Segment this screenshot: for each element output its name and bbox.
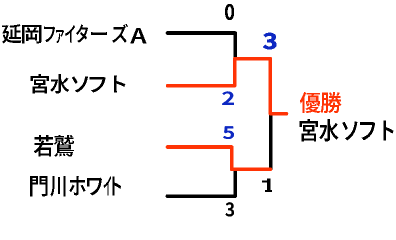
wire: final bottom vertical <box>269 114 273 169</box>
team 3 name glyph 鷲 <box>54 135 75 157</box>
team 1 name glyph ァ <box>56 30 64 43</box>
score 3 (team2 final, winner) <box>264 33 277 49</box>
wire: team4 line + semifinal-2 riser <box>167 171 235 196</box>
wire: team1 line + semifinal-1 drop <box>168 33 236 58</box>
champion name glyph フ <box>360 122 375 140</box>
score 0 (team1 semifinal) <box>225 4 234 20</box>
champion label glyph 優 <box>300 92 321 113</box>
wire: team3 line + semifinal-2 winner <box>168 147 271 169</box>
team 1 name glyph ズ <box>112 24 128 43</box>
score 5 (team3 semifinal, winner) <box>223 126 234 139</box>
score 3 (team4 semifinal) <box>226 202 234 216</box>
team 2 name glyph フ <box>89 77 105 93</box>
champion name glyph ト <box>383 121 393 141</box>
team 4 name glyph イ <box>104 176 112 195</box>
team 2 name glyph ソ <box>72 76 88 92</box>
team 1 name glyph 延 <box>2 24 21 43</box>
team 4 name glyph 川 <box>50 176 65 197</box>
team 4 name glyph ワ <box>87 178 102 196</box>
champion name glyph ソ <box>342 121 357 140</box>
team 3 name glyph 若 <box>34 135 53 156</box>
team 4 name glyph ト <box>112 176 121 195</box>
team 2 name glyph 水 <box>50 74 69 93</box>
team 1 name glyph 岡 <box>22 25 42 43</box>
team 1 name glyph フ <box>44 27 55 43</box>
team 1 name glyph ー <box>91 32 107 35</box>
team 4 name glyph ホ <box>69 176 85 195</box>
team 2 name glyph 宮 <box>31 74 49 93</box>
team 2 name glyph ト <box>114 75 125 92</box>
score 1 (team3 final) <box>262 178 272 192</box>
wire: team2 line + winner path to champion <box>168 59 287 114</box>
champion name glyph 宮 <box>300 119 318 141</box>
score 2 (team2 semifinal, winner) <box>222 91 234 104</box>
champion label glyph 勝 <box>321 92 342 113</box>
team 1 name glyph A <box>130 28 146 43</box>
team 1 name glyph イ <box>65 25 75 42</box>
team 1 name glyph タ <box>76 24 88 42</box>
team 4 name glyph 門 <box>30 176 48 197</box>
champion name glyph 水 <box>319 119 338 141</box>
